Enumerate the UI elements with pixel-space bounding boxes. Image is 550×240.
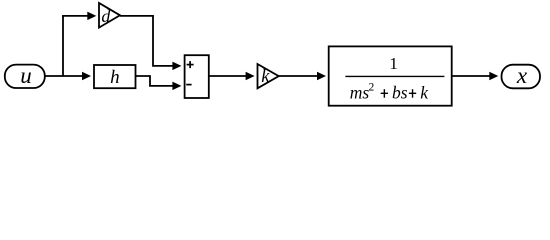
gain d [99,3,120,28]
svg-text:k: k [261,67,270,87]
svg-text:d: d [101,6,111,26]
outport x [502,65,541,89]
fraction bar [345,75,444,77]
wire d to sum plus input [120,16,175,66]
svg-text:k: k [420,83,429,103]
wire branch vertical [62,16,64,76]
label plus [187,61,194,68]
arrowhead into sum plus [172,62,181,71]
svg-text:x: x [516,63,528,88]
svg-text:2: 2 [369,81,375,93]
wire sum to k [209,75,248,77]
tf denominator plus 2 [409,89,416,98]
tf denominator plus 1 [381,89,388,98]
arrowhead into tf [317,72,326,81]
svg-text:bs: bs [392,83,408,103]
transfer fcn block [329,46,452,105]
sum block [185,55,209,98]
wire branch to d [62,15,89,17]
arrowhead into sum minus [172,82,181,91]
svg-text:h: h [110,67,120,88]
inport u [5,65,45,88]
wire k to transfer fcn [279,75,319,77]
arrowhead into x [489,72,498,81]
gain k [258,64,279,88]
wire h to sum minus input [136,76,175,86]
wire tf to x [452,75,491,77]
svg-text:ms: ms [350,83,370,103]
arrowhead into h [82,72,91,81]
arrowhead into k [246,72,255,81]
svg-text:u: u [20,63,32,88]
block h [94,65,136,88]
arrowhead into d [87,12,96,21]
svg-text:1: 1 [389,54,398,73]
label minus [186,84,191,86]
wire u to h with branch [45,75,84,77]
